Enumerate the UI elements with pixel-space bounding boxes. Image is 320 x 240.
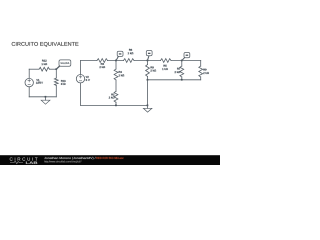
flag b0 at node C [182, 53, 190, 61]
resistor R12 1 kOhm [39, 60, 50, 71]
voltage source V1 1.875 V [25, 78, 43, 86]
resistor R9 2 kOhm [199, 66, 209, 77]
footer bar [0, 155, 220, 165]
wire right circuit bottom rail [81, 104, 148, 106]
node branch A bottom junction [115, 105, 117, 107]
wire left circuit bottom rail [29, 96, 56, 98]
wire R13 to bottom rail [55, 86, 57, 97]
resistor R5 1 kOhm [161, 59, 172, 70]
wire V1 bottom lead [28, 87, 30, 97]
resistor R6 1 kOhm [124, 49, 135, 63]
ground right circuit [143, 105, 152, 113]
wire R3 to node A [108, 60, 124, 62]
flag b2 at node A [116, 51, 123, 60]
wire R6 to node B [134, 60, 161, 62]
footer url [44, 161, 81, 163]
wire R2 to bottom rail [115, 102, 117, 105]
resistor R7 2 kOhm [175, 66, 184, 77]
wire V2 top lead [80, 61, 82, 75]
resistor R13 3 kOhm [54, 78, 65, 86]
wire node A down [115, 61, 117, 70]
footer circuit name [96, 157, 123, 159]
title CIRCUITO EQUIVALENTE [12, 42, 79, 47]
wire top rail right corner down [200, 61, 202, 67]
wire R8 to node E [147, 77, 149, 80]
wire R12 to output node [50, 68, 57, 70]
wire R4 to R2 [115, 80, 117, 91]
flag b1 at node B [146, 51, 152, 61]
footer credit line [44, 157, 95, 160]
wire node C down [181, 61, 183, 67]
wire right circuit top rail segment 1 [81, 60, 98, 62]
wire left circuit top rail [29, 68, 39, 70]
wire R9 to mid rail [200, 77, 202, 80]
wire R5 to node C [171, 60, 201, 62]
node A junction [115, 60, 117, 62]
resistor R8 2 kOhm [146, 65, 156, 77]
wire node B down [147, 61, 149, 65]
ground left circuit [41, 96, 50, 104]
node E junction [147, 79, 149, 81]
wire R7 to mid rail [181, 77, 183, 80]
wire V2 bottom lead [80, 83, 82, 106]
wire V1 top lead [28, 69, 30, 78]
logo CircuitLab wordmark [10, 157, 38, 163]
voltage source V2 5 V [76, 75, 89, 83]
node C junction [181, 60, 183, 62]
node SALIDA junction [55, 68, 57, 70]
flag SALIDA [57, 60, 71, 69]
wire node E down to ground rail [147, 80, 149, 106]
resistor R3 2 kOhm [97, 59, 108, 68]
node C bottom junction [181, 79, 183, 81]
resistor R2 2 kOhm [109, 91, 118, 102]
wire output node down [55, 69, 57, 78]
wire mid rail node E to right edge [148, 79, 201, 81]
resistor R4 1 kOhm [114, 69, 124, 80]
node B junction [147, 60, 149, 62]
